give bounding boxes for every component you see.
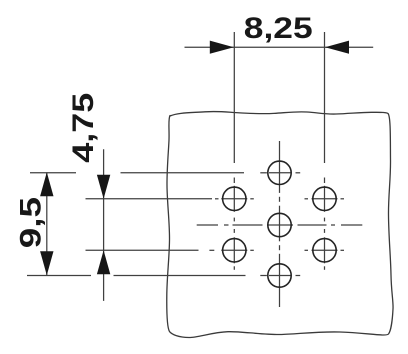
dimension 8,25 : left arrowhead <box>210 41 234 54</box>
hole middle <box>268 213 291 236</box>
dimension 8,25 : left extension line (left hole column) <box>233 32 235 163</box>
hole right upper <box>313 187 336 210</box>
dimension 9,5 : bottom arrowhead <box>40 251 53 275</box>
hole top middle <box>268 161 291 184</box>
centerline row 1 (top hole, y=172.8) <box>30 172 300 174</box>
hole right lower <box>313 239 336 262</box>
dimension 9,5 : dimension line <box>46 172 48 275</box>
dimension 9,5 : top arrowhead <box>40 172 53 196</box>
centerline right column (x=324.5) <box>324 178 326 270</box>
svg-text:4,75: 4,75 <box>66 93 99 163</box>
dimension 4,75 : bottom arrowhead (points up) <box>97 250 110 274</box>
hole left lower <box>223 239 246 262</box>
hole left upper <box>223 187 246 210</box>
centerline row S1 (upper side holes, y=198.8) <box>86 198 345 200</box>
dimension 4,75 : dimension line <box>103 149 105 301</box>
plate outline (wavy torn-edge square) <box>167 112 393 338</box>
dimension 4,75 : top arrowhead (points down) <box>97 175 110 199</box>
svg-text:9,5: 9,5 <box>15 197 48 248</box>
dimension 8,25 : dimension line <box>185 46 374 48</box>
dimension 8,25 : right arrowhead <box>325 41 349 54</box>
hole bottom middle <box>268 264 291 287</box>
centerline row S2 (lower side holes, y=250.3) <box>86 249 345 251</box>
centerline row M (middle hole, y=225) <box>197 224 363 226</box>
dimension 8,25 : right extension line (right hole column) <box>324 32 326 163</box>
centerline row 3 (bottom hole, y=275.5) <box>27 275 300 277</box>
centerline middle column (x=279.5) <box>279 141 281 307</box>
svg-text:8,25: 8,25 <box>244 12 313 45</box>
centerline left column (x=234.3) <box>233 178 235 270</box>
